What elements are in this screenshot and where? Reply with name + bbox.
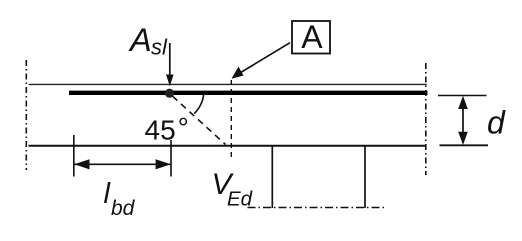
svg-text:A: A xyxy=(301,19,323,55)
svg-text:A: A xyxy=(128,22,152,58)
svg-text:45°: 45° xyxy=(145,112,189,146)
svg-text:bd: bd xyxy=(111,197,136,220)
svg-text:sl: sl xyxy=(151,35,168,60)
svg-text:d: d xyxy=(487,105,506,141)
